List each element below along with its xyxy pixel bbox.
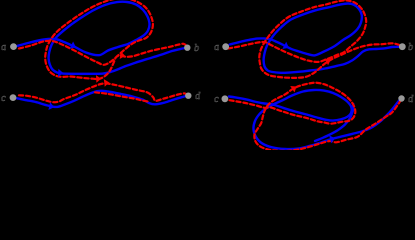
arrow on red a-b right b rise	[325, 58, 331, 65]
svg-text:b: b	[408, 42, 413, 53]
wire red arc a-b right	[228, 0, 399, 78]
wire blue arc a-b right	[230, 4, 399, 73]
arrow on red c-d right apex rise	[290, 86, 296, 93]
wire red arc a-b left	[19, 0, 187, 79]
wire blue arc c-d right loop closure	[315, 104, 353, 141]
node a right	[222, 43, 229, 50]
svg-text:d: d	[408, 94, 414, 105]
node d left	[185, 93, 191, 99]
wire blue arc c-d left	[17, 91, 186, 107]
svg-text:c: c	[214, 94, 219, 105]
right diagram	[228, 0, 401, 151]
node a left	[10, 43, 17, 50]
wire red hug strand left	[95, 92, 150, 102]
svg-text:b: b	[194, 43, 199, 54]
arrow on blue c-d right loop bottom	[329, 136, 335, 144]
wire blue arc c-d right	[229, 90, 401, 149]
arrow on blue a-b left horizontal	[58, 69, 63, 77]
node c right	[222, 95, 229, 102]
arrow on blue a-b left dip	[70, 42, 77, 49]
node b right	[399, 43, 406, 50]
svg-text:a: a	[214, 42, 219, 53]
arrow on red a-b left middle X	[120, 51, 126, 59]
svg-text:c: c	[1, 93, 6, 104]
arrow on red a-b left horizontal	[96, 75, 101, 83]
node c left	[10, 94, 17, 101]
wire red arc c-d left	[19, 83, 187, 102]
node b left	[184, 45, 190, 51]
arrow on blue c-d left	[48, 102, 54, 110]
node d right	[398, 95, 404, 101]
arrow on blue a-b right dip	[282, 42, 289, 49]
wire blue arc a-b left	[17, 2, 185, 74]
left diagram	[17, 0, 187, 107]
svg-text:a: a	[1, 42, 6, 53]
svg-text:d: d	[195, 91, 201, 102]
wire red arc c-d right	[230, 83, 401, 151]
arrow on red c-d left peak	[104, 79, 109, 87]
